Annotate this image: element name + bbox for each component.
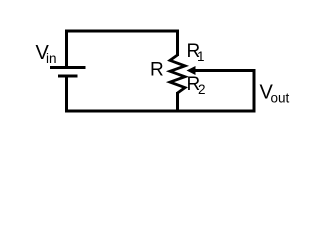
svg-text:out: out [271, 91, 290, 106]
label Vout [260, 82, 290, 106]
wire: left vertical from top-left corner down to battery + plate [65, 30, 68, 67]
label R2 (lower portion) [187, 74, 206, 97]
svg-text:R: R [150, 60, 164, 81]
wire: top horizontal (Vin+ to pot top) [65, 30, 179, 33]
wire: right vertical (Vout return) [253, 69, 256, 113]
svg-text:2: 2 [198, 82, 206, 97]
battery V1 (Vin source) : long positive plate [50, 66, 86, 69]
potentiometer R : zigzag resistor body [170, 55, 185, 93]
svg-text:in: in [46, 51, 57, 66]
wire: bottom horizontal (battery- to pot bottom to Vout-) [65, 110, 255, 113]
label R1 (upper portion) [187, 41, 205, 64]
wire: right vertical stub from top wire down to potentiometer top [176, 30, 179, 57]
wire: left vertical from battery - plate down to bottom-left corner [65, 77, 68, 113]
wire: stub from potentiometer bottom to bottom wire [176, 92, 179, 113]
wiper arrow of potentiometer (arrowhead) [187, 66, 196, 75]
svg-text:1: 1 [197, 49, 205, 64]
wire: wiper horizontal to Vout right side [194, 69, 256, 72]
battery V1 (Vin source) : short negative plate [58, 75, 78, 78]
label Vin [36, 42, 57, 66]
